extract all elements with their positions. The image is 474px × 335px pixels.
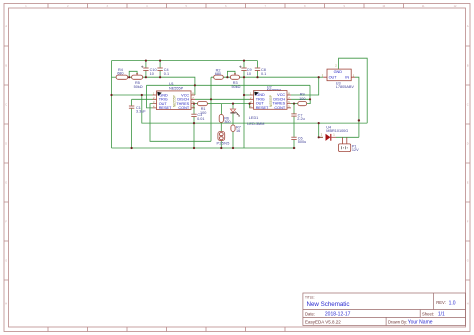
node LED branch junction bbox=[232, 103, 234, 105]
svg-text:C: C bbox=[467, 104, 469, 107]
wire diode to battery row bbox=[336, 136, 359, 138]
svg-text:IN: IN bbox=[345, 76, 349, 80]
svg-text:680: 680 bbox=[215, 72, 221, 76]
wire U1 GND row bbox=[112, 94, 153, 96]
svg-text:10: 10 bbox=[247, 72, 251, 76]
op-amp U2 NE555P bbox=[250, 86, 292, 110]
title block frame bbox=[303, 293, 466, 326]
svg-text:12V: 12V bbox=[352, 148, 359, 152]
svg-text:RESET: RESET bbox=[159, 106, 172, 110]
node C10 VCC row junction bbox=[145, 76, 147, 78]
resistor R2 bbox=[214, 75, 224, 79]
node buzzer ground junction bbox=[220, 147, 222, 149]
wire C3 column from THRES row bbox=[193, 104, 195, 114]
svg-text:500u: 500u bbox=[298, 140, 306, 144]
svg-text:300: 300 bbox=[224, 120, 230, 124]
node U1 DISCH junction bbox=[210, 98, 212, 100]
wire U2 THRES to R9 bbox=[291, 103, 298, 105]
node R4-R5 junction bbox=[128, 76, 130, 78]
title block row dividers bbox=[303, 310, 466, 318]
wire R6 branch bbox=[220, 104, 222, 115]
border zone ticks bottom bbox=[48, 327, 285, 332]
svg-text:H: H bbox=[467, 303, 469, 306]
svg-text:TITLE:: TITLE: bbox=[305, 296, 315, 300]
wire R5 to corner and drop bbox=[143, 77, 195, 85]
node C3 THRES junction bbox=[193, 103, 195, 105]
svg-text:P25N5: P25N5 bbox=[217, 142, 230, 146]
wire regulator OUT link bbox=[319, 76, 324, 78]
border zone numbers top bbox=[25, 5, 457, 8]
svg-text:D: D bbox=[5, 143, 7, 146]
wire R4-R5 junction segment bbox=[128, 76, 132, 78]
op-amp U1 NE555P bbox=[153, 82, 196, 110]
svg-text:2.2u: 2.2u bbox=[297, 117, 304, 121]
wire VCC row right segment bbox=[223, 76, 318, 78]
node GND riser junction bbox=[141, 94, 143, 96]
wire C7-C6 column from THRES row bbox=[293, 104, 295, 148]
resistor R4 bbox=[116, 75, 128, 79]
capacitor C10 polarized bbox=[141, 66, 157, 76]
node C3 ground junction bbox=[193, 147, 195, 149]
node C6 ground junction bbox=[293, 147, 295, 149]
svg-text:OUT: OUT bbox=[329, 76, 338, 80]
wire buzzer to ground rail bbox=[220, 141, 222, 148]
svg-text:Date:: Date: bbox=[305, 312, 315, 317]
wire U2 GND row bbox=[244, 94, 250, 96]
border zone letters left bbox=[5, 25, 7, 306]
svg-text:REV:: REV: bbox=[436, 300, 446, 305]
node C10 top rail junction bbox=[145, 60, 147, 62]
node diode branch junction bbox=[318, 122, 320, 124]
svg-text:50kΩ: 50kΩ bbox=[232, 85, 241, 89]
svg-text:100: 100 bbox=[299, 97, 305, 101]
node C4 top rail junction bbox=[159, 60, 161, 62]
wire U1 DISCH to U2 TRIG bbox=[195, 98, 250, 100]
wire C4 column bbox=[159, 61, 161, 78]
svg-text:MBR10100G: MBR10100G bbox=[326, 129, 348, 133]
svg-text:10: 10 bbox=[150, 72, 154, 76]
svg-text:NE555P: NE555P bbox=[269, 95, 273, 107]
wire U2 DISCH row bbox=[291, 85, 310, 99]
wire C1 column bbox=[131, 99, 133, 148]
wire regulator GND return bbox=[339, 58, 368, 123]
wire U2 OUT row to LED bbox=[221, 103, 249, 105]
node U1 VCC feed junction bbox=[194, 84, 196, 86]
wire W1 to diode bbox=[319, 123, 323, 137]
svg-text:CONT: CONT bbox=[274, 106, 285, 110]
wire middle dropper x244 bbox=[243, 61, 245, 148]
node C4 VCC row junction bbox=[159, 76, 161, 78]
node regulator OUT junction bbox=[318, 76, 320, 78]
svg-text:16: 16 bbox=[236, 129, 240, 133]
wire LED to R7 bbox=[232, 114, 234, 125]
potentiometer R5 bbox=[132, 73, 143, 89]
border zone ticks right bbox=[466, 46, 471, 280]
border zone letters right bbox=[467, 25, 469, 306]
capacitor C8 bbox=[255, 68, 266, 76]
wire R5 rheostat loop bbox=[129, 71, 137, 77]
svg-text:G: G bbox=[467, 260, 469, 263]
svg-text:1.0: 1.0 bbox=[449, 300, 456, 306]
battery P1 bbox=[339, 144, 360, 152]
wire regulator IN link bbox=[355, 77, 359, 137]
capacitor C4 bbox=[157, 68, 169, 76]
resistor R7 bbox=[231, 125, 241, 133]
buzzer P25N5 bbox=[217, 131, 230, 145]
svg-text:NE555P: NE555P bbox=[169, 86, 184, 90]
svg-text:LED1: LED1 bbox=[249, 116, 258, 120]
wire R1 right link bbox=[207, 103, 221, 105]
svg-text:Your Name: Your Name bbox=[408, 320, 433, 326]
wire U2 VCC row bbox=[291, 77, 319, 95]
svg-text:G: G bbox=[5, 260, 7, 263]
wire C3 to ground rail bbox=[193, 117, 195, 148]
wire LED column top bbox=[232, 104, 234, 109]
wire left vertical bus bbox=[111, 61, 113, 148]
capacitor C7 polarized bbox=[291, 114, 304, 121]
node C3 GND bus crossing junction bbox=[193, 122, 195, 124]
svg-text:LED-3MM: LED-3MM bbox=[247, 122, 264, 126]
svg-text:Drawn By:: Drawn By: bbox=[388, 319, 407, 324]
svg-text:3.3uF: 3.3uF bbox=[136, 109, 146, 113]
potentiometer R3 bbox=[230, 73, 240, 89]
svg-text:CONT: CONT bbox=[178, 106, 189, 110]
wire U1 VCC drop bbox=[194, 85, 196, 95]
svg-text:H: H bbox=[5, 303, 7, 306]
node left bus GND row junction bbox=[110, 94, 112, 96]
svg-text:680: 680 bbox=[117, 72, 123, 76]
svg-text:C: C bbox=[5, 104, 7, 107]
svg-text:0.1: 0.1 bbox=[261, 72, 266, 76]
wire R7 to ground rail bbox=[232, 132, 234, 149]
svg-text:NE555P: NE555P bbox=[173, 95, 177, 107]
svg-text:EasyEDA V5.8.22: EasyEDA V5.8.22 bbox=[305, 319, 341, 324]
wire R3 rheostat loop bbox=[227, 71, 235, 77]
node dropper VCC row junction bbox=[243, 76, 245, 78]
node U2 DISCH junction bbox=[309, 98, 311, 100]
voltage regulator U3 L7805ABV bbox=[322, 64, 355, 90]
svg-text:New Schematic: New Schematic bbox=[307, 301, 350, 308]
svg-text:D: D bbox=[467, 143, 469, 146]
node U2 GND junction bbox=[243, 94, 245, 96]
node C1 ground junction bbox=[131, 147, 133, 149]
svg-text:RESET: RESET bbox=[256, 106, 269, 110]
capacitor C9 polarized bbox=[239, 66, 252, 76]
svg-text:L7805ABV: L7805ABV bbox=[336, 85, 355, 89]
node battery minus junction bbox=[358, 119, 360, 121]
node R2-R3 junction bbox=[226, 76, 228, 78]
svg-text:2018-12-17: 2018-12-17 bbox=[325, 312, 351, 318]
wire top GND rail bbox=[112, 60, 258, 62]
border zone ticks top bbox=[48, 4, 404, 9]
capacitor C6 bbox=[291, 137, 306, 144]
battery pin stubs bbox=[343, 137, 347, 144]
wire vertical x211 bbox=[211, 77, 214, 141]
wire VCC row left segment bbox=[112, 76, 117, 78]
wire bottom GND rail bbox=[112, 147, 296, 149]
node C9 top rail junction bbox=[243, 60, 245, 62]
svg-text:1/1: 1/1 bbox=[438, 312, 445, 318]
node R7 ground junction bbox=[232, 147, 234, 149]
title block column dividers bbox=[386, 293, 433, 326]
wire C9 label column gap only bbox=[257, 61, 259, 78]
wire horizontal +V distribution y85.3 bbox=[147, 84, 311, 86]
node C8 VCC row junction bbox=[256, 76, 258, 78]
svg-text:50kΩ: 50kΩ bbox=[134, 85, 143, 89]
wire C10 column bbox=[145, 61, 147, 78]
diode U4 MBR10100G bbox=[319, 125, 349, 141]
wire U1 TRIG row bbox=[132, 98, 153, 100]
resistor R9 bbox=[298, 93, 307, 106]
wire R6 to buzzer bbox=[220, 123, 222, 132]
resistor R6 bbox=[219, 115, 230, 125]
node diode row corner junction bbox=[318, 136, 320, 138]
node U2 OUT-RESET tie junction bbox=[249, 103, 251, 105]
svg-text:0.01: 0.01 bbox=[197, 117, 204, 121]
wire R9 right riser bbox=[307, 99, 311, 103]
wire U1 OUT detour bbox=[150, 104, 211, 142]
wire U2 RESET tie bbox=[249, 104, 251, 108]
svg-text:GND: GND bbox=[334, 70, 343, 74]
wire U1 THRES to R1 bbox=[195, 103, 198, 105]
wire U1 RESET riser bbox=[147, 85, 153, 108]
svg-text:0.1: 0.1 bbox=[164, 72, 169, 76]
wire GND bus W1 bbox=[142, 95, 367, 123]
border zone ticks left bbox=[4, 46, 9, 280]
capacitor C1 bbox=[129, 106, 146, 114]
LED LED1 bbox=[230, 109, 264, 126]
capacitor C3 bbox=[191, 113, 204, 121]
resistor R1 bbox=[198, 102, 208, 115]
svg-text:Sheet:: Sheet: bbox=[422, 312, 434, 317]
node C7 THRES junction bbox=[293, 103, 295, 105]
